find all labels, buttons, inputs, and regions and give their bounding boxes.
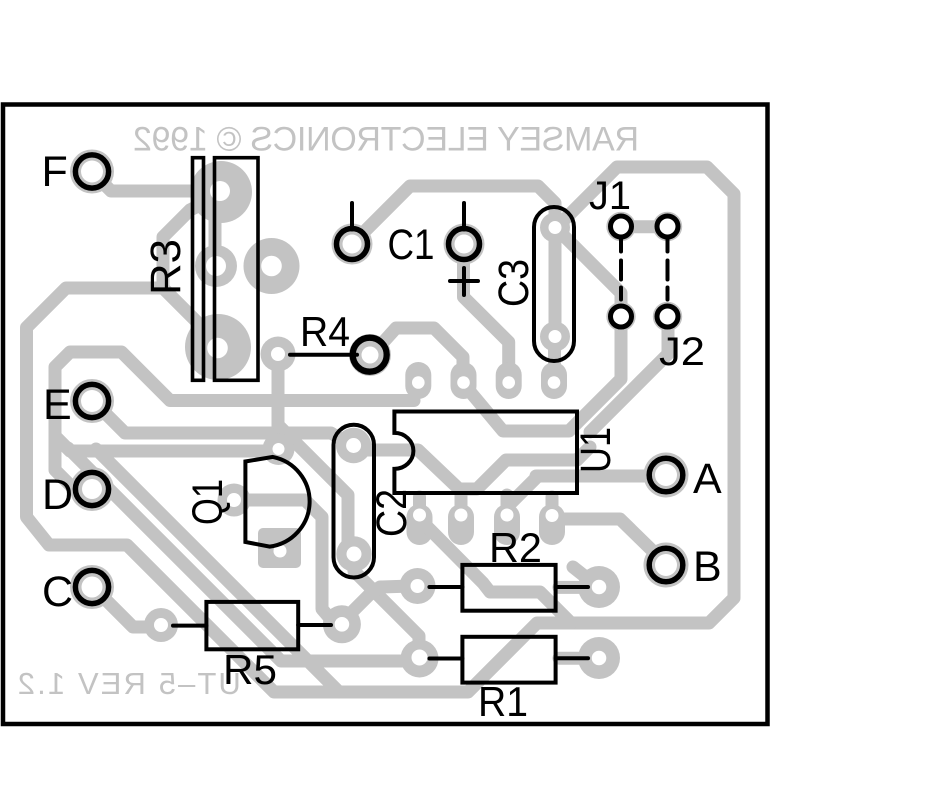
silkscreen labels	[42, 148, 723, 725]
pad U1 top bar 2	[451, 375, 477, 386]
resistor R5 body	[206, 602, 298, 649]
wire C pad to R5 left	[97, 591, 152, 627]
wire P1 down to left rail and around board (ground net)	[27, 167, 735, 692]
wire R1R lead stub	[559, 652, 598, 665]
pad Q1 top	[263, 433, 295, 465]
capacitor C1 right pad circle	[449, 229, 480, 260]
wire C3 bottom to U1 pad4	[548, 336, 561, 378]
pad R3 P2	[195, 245, 237, 287]
pad holes (white)	[81, 161, 677, 666]
pad C1 left ring	[332, 224, 373, 265]
pad U1 top bar 3	[496, 375, 522, 386]
wire P5 vertical down to Q1 top pad	[272, 360, 285, 446]
pad A ring	[644, 453, 689, 498]
jumper J1 dashed wire	[619, 240, 623, 304]
svg-text:E: E	[43, 381, 72, 429]
pad R1 right	[578, 637, 620, 679]
wire P1 to P2 vertical	[209, 212, 222, 250]
resistor R3 body (two rects)	[193, 158, 204, 381]
jumper J2 left circle	[611, 306, 632, 327]
IC U1 body with notch	[394, 412, 577, 494]
copper layer (gray traces, mirrored bottom copper)	[27, 167, 735, 692]
pad E circle	[75, 384, 108, 417]
wire tent branch to pad1	[411, 371, 424, 383]
wire U1 pad4b to B	[552, 519, 664, 562]
wire R2R stub	[573, 567, 597, 586]
wire hook chain to R1 left (c=380)	[68, 448, 412, 661]
svg-text:C: C	[42, 568, 73, 616]
svg-text:D: D	[42, 471, 73, 519]
pad J1R ring	[653, 212, 682, 241]
wire C3 internal bar	[549, 227, 562, 336]
jumper J2 dashed wire	[666, 240, 670, 304]
pad R4 ring	[349, 334, 391, 376]
svg-text:F: F	[42, 148, 68, 196]
svg-text:J1: J1	[589, 174, 631, 218]
wire J2L down into U1 band A	[467, 316, 621, 431]
pad R2 left	[400, 568, 436, 604]
jumper J1 right circle	[657, 216, 678, 237]
pad J2R ring	[653, 302, 682, 331]
wire band2 to Q1 top	[57, 438, 279, 451]
wire U1 bottom pad3 stub and diag	[501, 495, 514, 510]
pad R5 right	[323, 605, 361, 643]
jumper J2 right circle	[657, 306, 678, 327]
pad R3 P5 / R4 left	[261, 337, 296, 372]
svg-text:R4: R4	[300, 308, 350, 355]
pad U1 bottom bar 3	[494, 517, 520, 532]
board outline border	[3, 105, 768, 725]
wire A pad horizontal	[536, 470, 658, 483]
wire F-to-R3 net	[96, 176, 195, 191]
pad R1 left	[401, 640, 439, 678]
pad J2L ring	[606, 302, 635, 331]
pad B circle	[649, 548, 683, 582]
pad E ring	[70, 379, 114, 423]
pad U1 bottom bar 1	[407, 517, 433, 532]
wire U1 bottom pad2 stub	[455, 493, 468, 510]
pad C2 top	[336, 428, 371, 463]
wire P chain (c=353)	[96, 449, 339, 692]
jumper J1 left circle	[611, 216, 632, 237]
wire U1 bottom pad1 stub	[413, 497, 426, 510]
transistor Q1 body	[245, 457, 309, 547]
pad F circle	[75, 155, 108, 188]
svg-text:C3: C3	[490, 259, 538, 307]
pad A circle	[649, 458, 683, 492]
pad J1L ring	[606, 212, 635, 241]
pad C circle	[75, 570, 108, 603]
silkscreen black layer	[3, 105, 768, 725]
pad B ring	[644, 543, 689, 588]
pad Q1 bottom square	[258, 528, 301, 568]
resistor R2 body	[462, 565, 555, 611]
wire R4 tent to U1 pads 1,2	[378, 328, 463, 380]
pad F ring	[70, 150, 114, 194]
svg-text:A: A	[693, 455, 722, 503]
resistor R4 lead and pad circle	[290, 353, 357, 357]
pad U1 bottom bar 4	[539, 517, 565, 532]
pad R3 P1	[190, 161, 252, 223]
pad D circle	[75, 472, 108, 505]
svg-text:C2: C2	[368, 489, 416, 537]
wire junction to R3 P4	[163, 288, 214, 339]
wire R2R lead stub	[559, 581, 598, 594]
svg-text:C1: C1	[388, 221, 435, 269]
pad D ring	[70, 467, 114, 511]
svg-text:Q1: Q1	[184, 479, 232, 525]
wire E to C2 top	[96, 404, 354, 447]
pad U1 top bar 1	[405, 375, 431, 386]
pad U1 bottom bar 2	[448, 517, 474, 532]
svg-text:U1: U1	[572, 427, 620, 473]
svg-text:R2: R2	[489, 524, 542, 571]
capacitor C2 body	[334, 425, 375, 578]
pad C3 top	[540, 213, 570, 243]
svg-text:R3: R3	[142, 239, 190, 295]
wire C1L to C3 top	[356, 186, 555, 240]
pad R2 right	[578, 566, 620, 608]
pad C3 bottom	[540, 322, 570, 352]
wire C1R down to U1 pad3	[464, 252, 509, 378]
wire C2top notch V across U1	[358, 447, 590, 489]
svg-text:J2: J2	[659, 330, 705, 374]
svg-text:B: B	[693, 543, 722, 591]
copper pads	[70, 150, 689, 680]
wire C2 bottom to R1 left	[354, 559, 419, 652]
resistor R1 body	[462, 637, 555, 683]
wire P5 branch to C2 bottom	[280, 427, 348, 550]
wire U1 bottom pad4 stub	[546, 497, 559, 510]
wire U1 bottom pad1 zigzag through R2 to bottom rail	[420, 519, 572, 623]
pad R5 left	[144, 608, 178, 642]
wire R5R to R2L	[345, 586, 412, 619]
pad Q1 left	[218, 484, 251, 517]
wire J2R down into U1	[590, 316, 668, 432]
wire C3 top to J2 left	[558, 230, 621, 316]
wire E hook / Q1 top net	[55, 352, 414, 488]
svg-text:R5: R5	[223, 646, 277, 693]
svg-text:RAMSEY ELECTRONICS © 1992: RAMSEY ELECTRONICS © 1992	[133, 120, 639, 158]
pad C2 bottom	[336, 536, 371, 571]
capacitor C3 body	[534, 207, 574, 361]
wire Q1 left pad down to R5 right	[240, 500, 342, 624]
wire J1 pair bar	[621, 220, 668, 233]
pad R3 P4	[185, 314, 251, 380]
svg-text:UT–5 REV 1.2: UT–5 REV 1.2	[18, 666, 241, 701]
svg-text:R1: R1	[478, 678, 528, 725]
pad C ring	[70, 565, 114, 609]
C1 plus sign	[450, 279, 478, 283]
pad U1 top bar 4	[541, 375, 567, 386]
pad C1 right ring	[444, 224, 485, 265]
pad R3 P3	[244, 238, 300, 294]
capacitor C1 left pad circle	[337, 229, 368, 260]
